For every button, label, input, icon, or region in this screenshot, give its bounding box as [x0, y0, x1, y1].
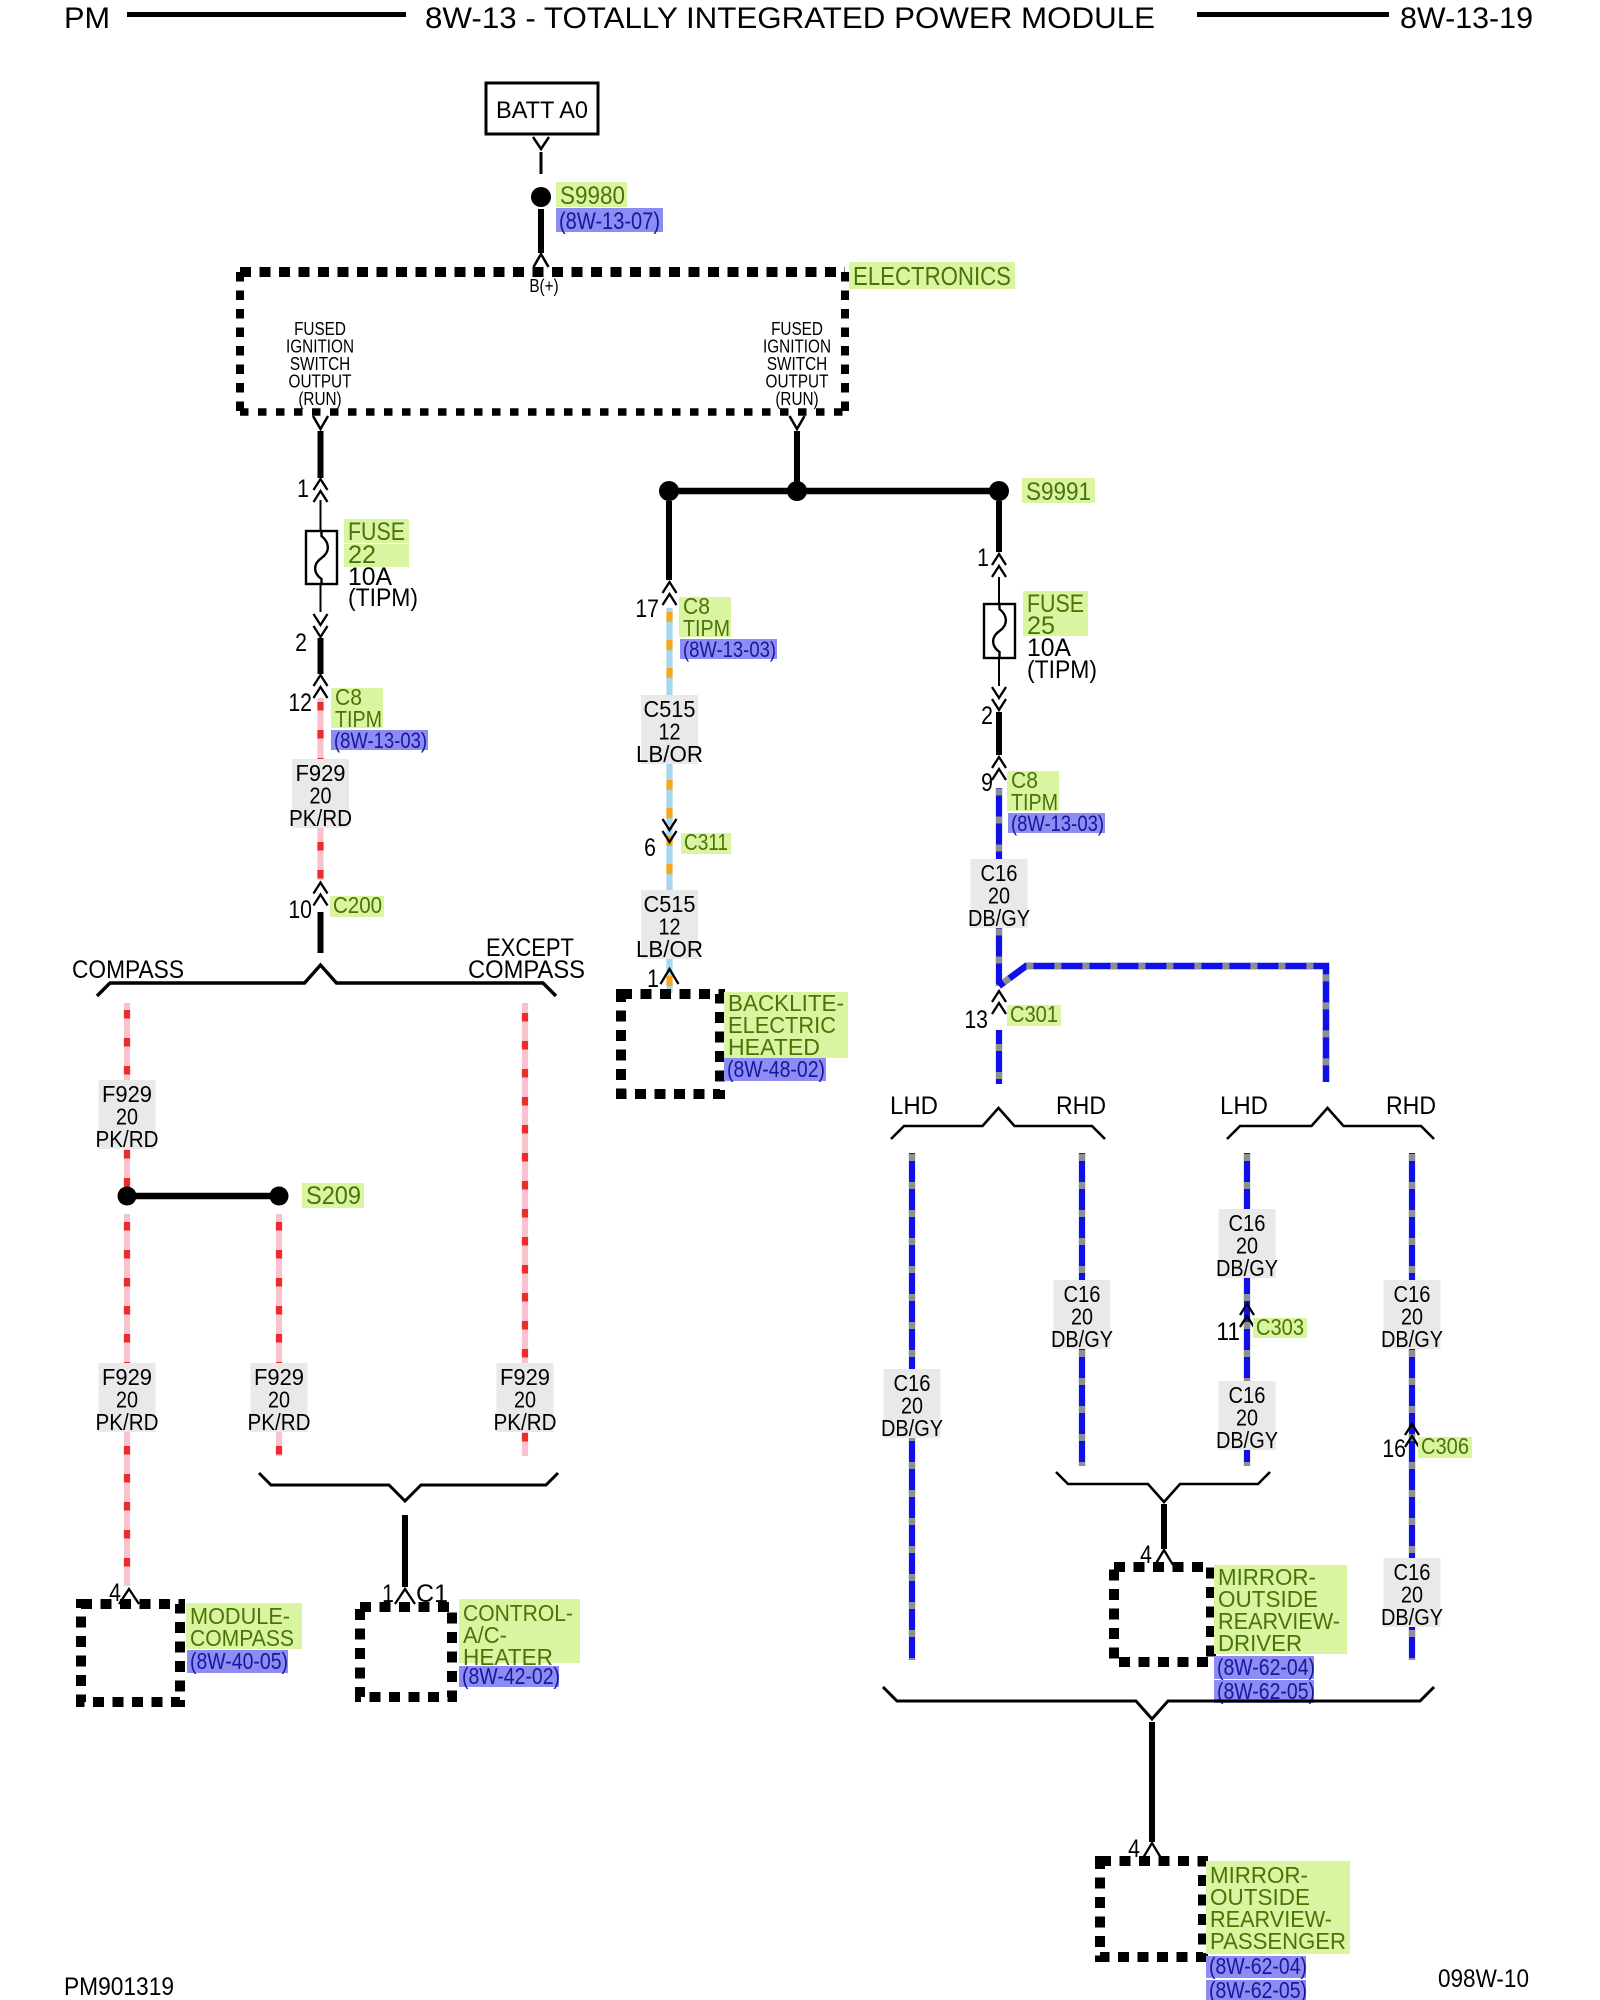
label C200	[330, 896, 384, 917]
wire C16 branch to RHD pair	[999, 966, 1326, 1082]
label C301	[1007, 1005, 1061, 1026]
wire label C16 20 DB/GY lower	[1219, 1381, 1276, 1450]
label C8 TIPM	[331, 688, 383, 728]
wire F929 to compass module	[124, 1214, 130, 1586]
fuse F22 symbol	[306, 531, 337, 584]
wire from fuse 22	[320, 584, 322, 612]
svg-text:8W-13-19: 8W-13-19	[1400, 2, 1533, 35]
svg-text:LHD: LHD	[1220, 1092, 1268, 1120]
svg-text:LB/OR: LB/OR	[636, 741, 703, 767]
svg-text:098W-10: 098W-10	[1438, 1965, 1529, 1993]
pin 1 connector chevrons	[314, 479, 328, 490]
svg-text:DB/GY: DB/GY	[881, 1415, 943, 1441]
svg-text:PM: PM	[64, 2, 110, 35]
wire label F929 20 PK/RD	[99, 1363, 156, 1432]
svg-text:C306: C306	[1421, 1433, 1469, 1459]
svg-text:DB/GY: DB/GY	[1216, 1427, 1278, 1453]
wire C16 LHD passenger upper	[1244, 1153, 1250, 1466]
svg-text:COMPASS: COMPASS	[72, 956, 184, 984]
svg-text:PK/RD: PK/RD	[248, 1409, 311, 1435]
label ELECTRONICS	[849, 262, 1015, 289]
wire from FUSED output to bus	[794, 431, 800, 482]
svg-text:1: 1	[297, 475, 309, 503]
svg-text:(8W-62-04): (8W-62-04)	[1217, 1654, 1315, 1680]
svg-text:COMPASS: COMPASS	[468, 956, 585, 984]
component box MIRROR-OUTSIDE REARVIEW-PASSENGER	[1100, 1861, 1203, 1957]
svg-text:10: 10	[288, 896, 312, 924]
svg-text:RHD: RHD	[1386, 1092, 1436, 1120]
pin 1 entry chevron	[661, 969, 679, 984]
wire F929 20 PK/RD upper	[317, 698, 323, 880]
svg-text:1: 1	[647, 965, 659, 993]
pin 13 connector chevrons C301	[992, 991, 1006, 1002]
svg-text:PK/RD: PK/RD	[96, 1409, 159, 1435]
reference (8W-62-05)	[1206, 1980, 1306, 2000]
pin 10 connector chevrons C200	[314, 883, 328, 894]
pin 4 entry chevron	[1143, 1843, 1161, 1858]
bus node right	[989, 481, 1009, 501]
pin 1 entry chevron	[395, 1589, 415, 1604]
reference (8W-62-05)	[1214, 1680, 1314, 1703]
pin 16 connector chevrons C306	[1405, 1424, 1419, 1435]
reference (8W-13-03)	[331, 730, 428, 750]
exit chevron right FUSED output	[790, 416, 805, 429]
wire label F929 20 PK/RD	[251, 1363, 308, 1432]
reference (8W-62-04)	[1206, 1956, 1306, 1978]
splice S209 right node	[270, 1187, 289, 1206]
component box MODULE-COMPASS	[81, 1604, 180, 1702]
svg-text:12: 12	[288, 689, 312, 717]
wire F929 EXCEPT COMPASS branch	[522, 1003, 528, 1456]
svg-text:16: 16	[1382, 1435, 1406, 1463]
reference (8W-40-05)	[187, 1650, 288, 1673]
svg-text:(RUN): (RUN)	[298, 389, 341, 409]
component box CONTROL-A/C-HEATER	[360, 1607, 452, 1697]
split brace COMPASS / EXCEPT COMPASS	[97, 965, 556, 996]
pin 1 connector chevrons	[992, 554, 1006, 565]
wire from pin 2 to C8	[996, 712, 1002, 755]
wire to mirror passenger	[1149, 1722, 1155, 1842]
wire C16 below C301	[996, 1030, 1002, 1084]
label MIRROR-OUTSIDE REARVIEW-DRIVER	[1214, 1565, 1347, 1654]
svg-text:B(+): B(+)	[529, 276, 558, 296]
ELECTRONICS module dashed box	[240, 267, 845, 277]
svg-text:2: 2	[981, 702, 993, 730]
split brace LHD/RHD driver	[891, 1108, 1105, 1139]
wire F929 COMPASS branch	[124, 1003, 130, 1187]
splice bus S9991	[669, 488, 999, 495]
wire from fuse 25	[998, 658, 1000, 686]
reference (8W-13-07)	[556, 208, 663, 232]
wire from bus to fuse 25 pin 1	[996, 501, 1002, 552]
label BACKLITE-ELECTRIC HEATED	[724, 992, 848, 1058]
svg-text:DB/GY: DB/GY	[1216, 1255, 1278, 1281]
pin 2 connector chevrons	[992, 687, 1006, 698]
wire from bus to C8 pin 17	[666, 501, 672, 580]
svg-text:DB/GY: DB/GY	[1381, 1326, 1443, 1352]
label MODULE-COMPASS	[186, 1603, 302, 1649]
pin 4 entry chevron	[1155, 1550, 1173, 1565]
splice S209 bar	[127, 1193, 279, 1200]
join brace to mirror driver	[1056, 1472, 1270, 1502]
svg-text:S9980: S9980	[560, 182, 625, 210]
pin 17 connector chevrons	[663, 582, 677, 593]
pin 2 connector chevrons	[314, 614, 328, 625]
wire label C16 20 DB/GY lower	[1384, 1558, 1441, 1627]
wire to mirror driver	[1161, 1504, 1167, 1549]
bus node left	[659, 481, 679, 501]
label C311	[681, 833, 731, 854]
svg-text:PK/RD: PK/RD	[494, 1409, 557, 1435]
splice S209 left node	[118, 1187, 137, 1206]
component box MIRROR-OUTSIDE REARVIEW-DRIVER	[1114, 1567, 1211, 1662]
label C306	[1418, 1437, 1472, 1458]
svg-text:ELECTRONICS: ELECTRONICS	[853, 261, 1011, 291]
svg-text:(RUN): (RUN)	[775, 389, 818, 409]
wire label C16 20 DB/GY upper	[1384, 1280, 1441, 1349]
pin 4 entry chevron	[119, 1589, 139, 1604]
bus node center	[787, 481, 807, 501]
pin 12 connector chevrons C8	[314, 675, 328, 686]
wire C16 20 DB/GY main	[996, 788, 1002, 986]
wire label C515 12 LB/OR lower	[641, 890, 698, 959]
wire from pin 2 to C8	[318, 638, 324, 674]
svg-text:(8W-42-02): (8W-42-02)	[462, 1663, 560, 1689]
wire from BATT A0 to splice	[540, 152, 543, 174]
svg-text:(8W-40-05): (8W-40-05)	[190, 1648, 288, 1674]
svg-text:8W-13 - TOTALLY INTEGRATED POW: 8W-13 - TOTALLY INTEGRATED POWER MODULE	[425, 2, 1155, 35]
svg-text:(8W-62-05): (8W-62-05)	[1209, 1977, 1307, 2000]
exit chevron left FUSED output	[313, 416, 328, 429]
wire label C16 20 DB/GY upper	[1219, 1209, 1276, 1278]
svg-text:2: 2	[295, 629, 307, 657]
svg-text:DB/GY: DB/GY	[1381, 1604, 1443, 1630]
label S9991	[1022, 478, 1095, 503]
wire to A/C control	[402, 1515, 408, 1587]
svg-text:C303: C303	[1256, 1314, 1304, 1340]
svg-text:13: 13	[964, 1006, 988, 1034]
svg-text:DB/GY: DB/GY	[968, 905, 1030, 931]
svg-text:C200: C200	[333, 892, 382, 918]
wire label F929 20 PK/RD	[497, 1363, 554, 1432]
wire C515 12 LB/OR	[666, 608, 672, 993]
svg-text:(8W-13-07): (8W-13-07)	[559, 208, 660, 235]
pin 11 connector chevrons C303	[1240, 1304, 1254, 1315]
label C8 TIPM	[1007, 771, 1059, 811]
wire label C16 20 DB/GY	[1054, 1280, 1111, 1349]
join brace to A/C control	[259, 1473, 558, 1501]
battery feed box BATT A0	[486, 83, 598, 134]
svg-text:11: 11	[1216, 1318, 1240, 1346]
svg-text:PK/RD: PK/RD	[289, 805, 352, 831]
svg-text:17: 17	[635, 595, 659, 623]
svg-text:1: 1	[977, 544, 989, 572]
svg-text:9: 9	[981, 769, 993, 797]
svg-text:(TIPM): (TIPM)	[1027, 656, 1097, 684]
header rule left	[127, 12, 406, 17]
label S209	[302, 1183, 364, 1208]
wire label C515 12 LB/OR upper	[641, 695, 698, 764]
pin B(+) entry chevron	[534, 254, 549, 267]
label MIRROR-OUTSIDE REARVIEW-PASSENGER	[1206, 1861, 1350, 1954]
svg-text:6: 6	[644, 834, 656, 862]
label FUSE 25	[1023, 591, 1088, 614]
splice S9980	[531, 187, 551, 207]
svg-text:C311: C311	[684, 829, 728, 855]
label S9980	[556, 182, 627, 207]
wire to fuse 22 pin 1	[318, 431, 324, 478]
svg-text:DB/GY: DB/GY	[1051, 1326, 1113, 1352]
pin 9 connector chevrons C8	[992, 757, 1006, 768]
wire C16 LHD driver	[909, 1153, 915, 1660]
connector chevron below BATT A0	[533, 137, 549, 149]
wire label F929 20 PK/RD	[292, 759, 349, 828]
svg-text:(8W-48-02): (8W-48-02)	[727, 1056, 825, 1082]
svg-text:DRIVER: DRIVER	[1218, 1630, 1302, 1656]
svg-text:(8W-13-03): (8W-13-03)	[1011, 811, 1104, 836]
svg-text:LB/OR: LB/OR	[636, 936, 703, 962]
svg-text:PASSENGER: PASSENGER	[1210, 1928, 1346, 1954]
header rule right	[1197, 12, 1389, 17]
wire from C200 to split	[318, 912, 324, 953]
pin 6 connector chevrons C311	[663, 819, 677, 830]
wire F929 S209 right branch	[276, 1214, 282, 1456]
fuse F25 symbol	[984, 604, 1015, 658]
label C303	[1253, 1318, 1307, 1338]
svg-text:(8W-13-03): (8W-13-03)	[683, 637, 776, 662]
label C8 TIPM	[679, 597, 731, 637]
reference (8W-42-02)	[459, 1666, 559, 1687]
svg-text:BATT A0: BATT A0	[496, 97, 588, 124]
label FUSE 22	[344, 519, 409, 543]
wire label C16 20 DB/GY	[971, 859, 1028, 928]
wire C16 RHD driver	[1079, 1153, 1085, 1466]
wire label F929 20 PK/RD	[99, 1080, 156, 1149]
svg-text:(8W-62-04): (8W-62-04)	[1209, 1953, 1307, 1979]
svg-text:LHD: LHD	[890, 1092, 938, 1120]
wire label C16 20 DB/GY	[884, 1369, 941, 1438]
component box BACKLITE-ELECTRIC HEATED	[621, 994, 720, 1094]
wire from splice S9980 to ELECTRONICS box	[538, 209, 544, 253]
join brace to mirror passenger	[883, 1687, 1434, 1719]
wire C16 RHD passenger	[1409, 1153, 1415, 1660]
svg-text:S209: S209	[306, 1182, 361, 1210]
svg-text:(8W-13-03): (8W-13-03)	[334, 728, 427, 753]
svg-text:RHD: RHD	[1056, 1092, 1106, 1120]
reference (8W-62-04)	[1214, 1656, 1314, 1679]
svg-text:PM901319: PM901319	[64, 1973, 174, 2000]
svg-text:PK/RD: PK/RD	[96, 1126, 159, 1152]
reference (8W-13-03)	[680, 639, 777, 659]
reference (8W-48-02)	[724, 1058, 826, 1081]
svg-text:(TIPM): (TIPM)	[348, 584, 418, 612]
reference (8W-13-03)	[1008, 813, 1105, 833]
svg-text:C301: C301	[1010, 1001, 1058, 1027]
split brace LHD/RHD passenger	[1227, 1108, 1434, 1139]
wire into fuse 22	[320, 500, 322, 531]
svg-text:S9991: S9991	[1026, 478, 1091, 506]
wire into fuse 25	[998, 577, 1000, 604]
label CONTROL-A/C-HEATER	[459, 1599, 580, 1663]
